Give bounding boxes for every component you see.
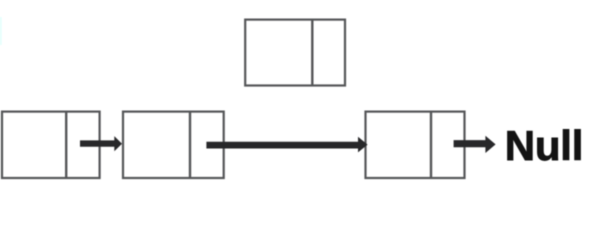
svg-text:Null: Null xyxy=(505,122,584,169)
arrow node1 -> node2 xyxy=(80,136,122,151)
node 1 box (two cells) xyxy=(2,112,100,178)
node 3 divider xyxy=(430,111,432,179)
arrow node3 -> Null xyxy=(454,136,496,153)
arrow node2 -> node3 xyxy=(206,137,367,153)
node 2 box (two cells) xyxy=(123,112,224,178)
node 3 box (two cells) xyxy=(366,112,465,178)
left-edge faint cyan artifact xyxy=(0,17,2,45)
Null label xyxy=(505,122,584,169)
new-node divider xyxy=(311,19,313,87)
node 1 divider xyxy=(65,111,67,179)
node 2 divider xyxy=(189,111,191,179)
new-node box (top, two cells) xyxy=(245,20,345,86)
